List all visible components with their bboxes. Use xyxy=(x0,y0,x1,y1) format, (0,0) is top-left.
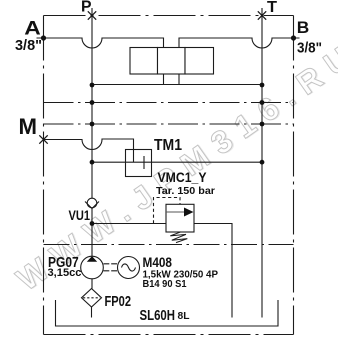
node T section upper xyxy=(260,100,265,105)
svg-text:SL60H: SL60H xyxy=(140,307,176,324)
section line upper xyxy=(44,102,294,104)
motor sine symbol xyxy=(122,264,136,271)
enclosure border bottom xyxy=(44,334,294,336)
wire P riser xyxy=(91,8,93,258)
valve block cell middle xyxy=(158,48,186,75)
wire T return xyxy=(261,8,263,318)
wire gauge line P-T xyxy=(92,161,262,163)
svg-text:B14 90 S1: B14 90 S1 xyxy=(143,279,187,290)
port M mark xyxy=(39,135,47,143)
pump PG07 circle xyxy=(81,256,104,279)
wire port M to test point xyxy=(44,139,134,162)
wire pump suction xyxy=(91,279,93,289)
section line tank top xyxy=(44,244,294,246)
node T gauge line xyxy=(260,160,265,165)
port P mark xyxy=(88,11,96,19)
wire port A to valve block xyxy=(37,38,164,85)
node P gauge line xyxy=(90,160,95,165)
valve block cell right xyxy=(185,48,214,75)
svg-text:P: P xyxy=(81,0,92,16)
test point TM1 pin xyxy=(143,156,145,169)
check valve VU1 xyxy=(85,198,99,208)
pump flow triangle xyxy=(87,256,97,262)
node P section upper xyxy=(90,100,95,105)
node T channel xyxy=(260,83,265,88)
svg-text:T: T xyxy=(267,0,277,16)
wire port B to valve block xyxy=(179,38,300,85)
watermark WWW.JPM316.RU xyxy=(10,34,338,299)
relief valve arrow xyxy=(166,211,186,213)
svg-text:M408: M408 xyxy=(143,254,173,270)
filter screen dashes xyxy=(83,297,100,299)
wire channel P-T xyxy=(92,84,262,86)
svg-text:M: M xyxy=(19,114,38,139)
enclosure border top xyxy=(44,15,294,17)
enclosure border right xyxy=(293,16,295,335)
svg-text:FP02: FP02 xyxy=(105,293,132,310)
svg-text:Tar. 150 bar: Tar. 150 bar xyxy=(156,185,215,197)
svg-text:VU1: VU1 xyxy=(69,207,91,223)
relief valve arrow head xyxy=(184,208,194,217)
coupling pump-motor xyxy=(104,264,118,271)
tank SL60H outline xyxy=(56,300,279,326)
svg-text:3/8": 3/8" xyxy=(297,40,322,57)
port T mark xyxy=(258,11,266,19)
node P channel xyxy=(90,83,95,88)
filter FP02 diamond xyxy=(82,289,102,308)
wire relief valve to tank xyxy=(194,224,232,318)
node P section lower xyxy=(90,122,95,127)
pilot line VMC1_Y xyxy=(154,198,181,224)
node T section lower xyxy=(260,122,265,127)
node P relief branch xyxy=(90,221,95,226)
svg-text:3/8": 3/8" xyxy=(15,37,42,54)
node port B xyxy=(291,35,296,40)
svg-text:8L: 8L xyxy=(178,310,191,322)
test point TM1 box xyxy=(126,150,152,177)
svg-text:B: B xyxy=(297,18,310,37)
svg-text:VMC1_Y: VMC1_Y xyxy=(158,169,208,185)
node port A xyxy=(41,35,46,40)
wire pump to relief valve xyxy=(92,223,166,225)
wire filter to tank xyxy=(91,307,93,318)
svg-text:3,15cc: 3,15cc xyxy=(48,267,82,279)
relief valve VMC1_Y body xyxy=(166,204,194,232)
motor M408 circle xyxy=(118,257,140,279)
valve block cell left xyxy=(130,48,158,75)
svg-text:TM1: TM1 xyxy=(154,137,182,154)
section line lower xyxy=(44,123,294,125)
enclosure border left xyxy=(43,16,45,335)
relief valve spring xyxy=(170,232,187,243)
